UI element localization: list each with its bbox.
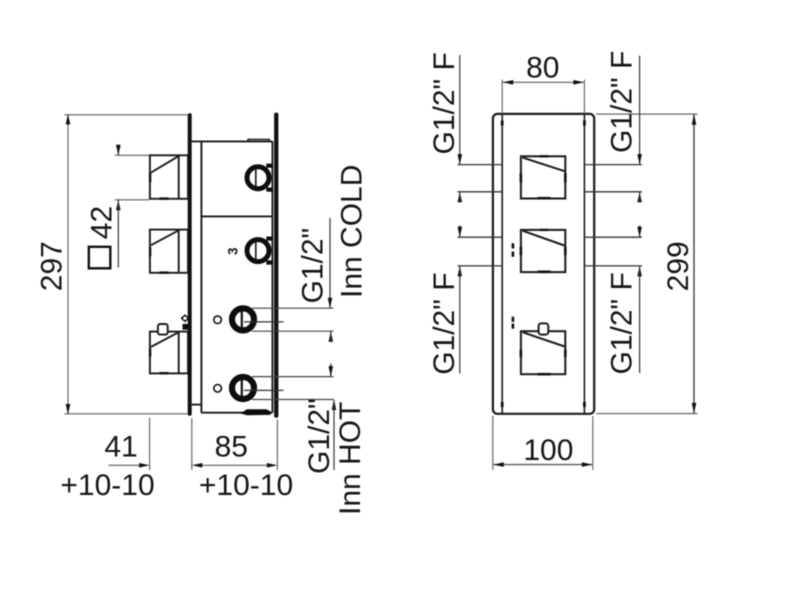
knob 1 face tick xyxy=(149,173,151,182)
dimension 41 xyxy=(104,418,149,471)
port A (top outlet, side) xyxy=(247,164,273,192)
plate dashes left of knob 3 xyxy=(512,317,515,329)
svg-text:85: 85 xyxy=(215,431,248,464)
left stub 2 lines xyxy=(458,237,503,266)
plate dashes left of knob 2 xyxy=(512,243,515,257)
G1/2 F callout top-left xyxy=(428,52,462,202)
dimension 80 xyxy=(502,52,584,114)
G1/2 F callout bottom-right xyxy=(606,226,642,375)
dimension 85 xyxy=(192,418,278,470)
svg-text:299: 299 xyxy=(662,241,695,291)
left stub 1 lines xyxy=(458,165,503,192)
safety-stop symbol on plate xyxy=(182,315,189,329)
svg-text:G1/2" F: G1/2" F xyxy=(428,52,461,154)
knob 2 bottom tick xyxy=(159,271,168,273)
svg-text:3: 3 xyxy=(226,247,241,255)
port B (second outlet, side) xyxy=(247,237,273,265)
dimension 297 xyxy=(35,114,187,415)
dimension 100 xyxy=(493,416,593,470)
wall back mounting plate (edge view) xyxy=(274,113,278,418)
knob 1 (side) xyxy=(150,155,188,199)
front knob 2 xyxy=(521,230,565,272)
port C screw circle xyxy=(214,316,222,324)
front plate outline xyxy=(493,114,594,414)
svg-text:Inn HOT: Inn HOT xyxy=(334,402,367,515)
bottom outlet stub (filled) xyxy=(240,409,270,415)
dimension 299 xyxy=(596,114,698,414)
HOT inlet callout (side) xyxy=(252,364,367,516)
wall front plate (edge view) xyxy=(188,113,192,416)
knob 2 marks xyxy=(520,229,567,273)
valve body outline (side) xyxy=(192,141,273,412)
inner right edge xyxy=(583,114,585,414)
knob 3 face tick xyxy=(149,348,151,356)
svg-text:G1/2" F: G1/2" F xyxy=(428,272,461,374)
svg-text:G1/2": G1/2" xyxy=(303,398,336,474)
G1/2 F callout top-right xyxy=(606,51,642,203)
svg-text:80: 80 xyxy=(526,52,559,85)
dimension 42 (square knob size) xyxy=(86,145,150,269)
port D screw circle xyxy=(214,385,222,393)
svg-text:G1/2" F: G1/2" F xyxy=(606,272,639,374)
top outlet stub xyxy=(248,139,269,141)
knob 3 marks xyxy=(520,350,567,376)
knob 1 bottom tick xyxy=(159,197,168,199)
port D (HOT inlet, side) xyxy=(232,375,284,402)
svg-text:297: 297 xyxy=(35,241,68,291)
front knob 1 xyxy=(521,156,565,198)
front knob 3 (thermostat) xyxy=(521,323,565,374)
svg-text:Inn COLD: Inn COLD xyxy=(336,165,369,298)
svg-text:100: 100 xyxy=(523,434,573,467)
label 3 (port B) xyxy=(226,247,241,255)
knob 3 thermostat (side) xyxy=(150,324,188,373)
right stub 1 lines xyxy=(584,165,642,192)
right stub 2 lines xyxy=(584,237,642,266)
knob 2 (side) xyxy=(150,230,188,273)
knob 3 bottom tick xyxy=(159,372,168,374)
body divider line xyxy=(201,215,272,217)
svg-text:+10-10: +10-10 xyxy=(199,469,293,502)
G1/2 F callout bottom-left xyxy=(428,226,462,375)
svg-text:G1/2": G1/2" xyxy=(297,228,330,304)
inner left edge xyxy=(501,114,503,414)
svg-text:41: 41 xyxy=(104,431,137,464)
svg-text:G1/2" F: G1/2" F xyxy=(606,51,639,153)
COLD inlet callout (side) xyxy=(252,165,369,342)
port C (COLD inlet, side) xyxy=(232,306,284,333)
svg-text:42: 42 xyxy=(86,206,119,239)
knob 2 face tick xyxy=(149,247,151,256)
knob 1 marks xyxy=(520,155,567,199)
svg-text:+10-10: +10-10 xyxy=(60,469,154,502)
